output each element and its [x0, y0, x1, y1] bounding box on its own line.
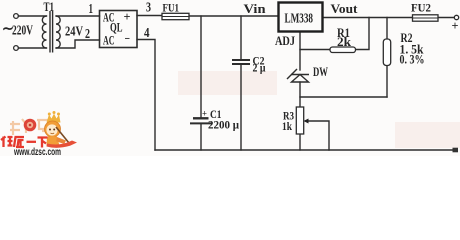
svg-text:+: + — [124, 10, 131, 24]
svg-text:DW: DW — [313, 65, 328, 79]
svg-text:+: + — [202, 109, 207, 119]
svg-text:1k: 1k — [282, 119, 292, 133]
svg-text:FU2: FU2 — [411, 1, 431, 15]
svg-text:www.dzsc.com: www.dzsc.com — [13, 147, 61, 156]
svg-text:2: 2 — [85, 26, 90, 41]
svg-text:+: + — [452, 18, 459, 33]
svg-text:Vin: Vin — [244, 1, 267, 16]
svg-text:LM338: LM338 — [285, 10, 314, 25]
svg-text:24V: 24V — [65, 24, 83, 39]
svg-text:T1: T1 — [44, 0, 55, 14]
svg-text:Vout: Vout — [331, 1, 359, 16]
svg-text:4: 4 — [144, 25, 150, 40]
svg-text:220V: 220V — [12, 23, 33, 38]
svg-text:2200 μ: 2200 μ — [208, 118, 239, 132]
svg-text:FU1: FU1 — [163, 1, 180, 15]
svg-text:AC: AC — [103, 34, 115, 48]
svg-text:2 μ: 2 μ — [253, 61, 266, 75]
svg-text:ADJ: ADJ — [275, 34, 295, 48]
svg-text:2k: 2k — [337, 35, 351, 49]
svg-text:QL: QL — [110, 21, 123, 35]
svg-text:0. 3%: 0. 3% — [400, 53, 425, 67]
svg-text:3: 3 — [146, 0, 151, 15]
svg-text:1: 1 — [89, 1, 94, 16]
svg-text:−: − — [125, 32, 131, 46]
